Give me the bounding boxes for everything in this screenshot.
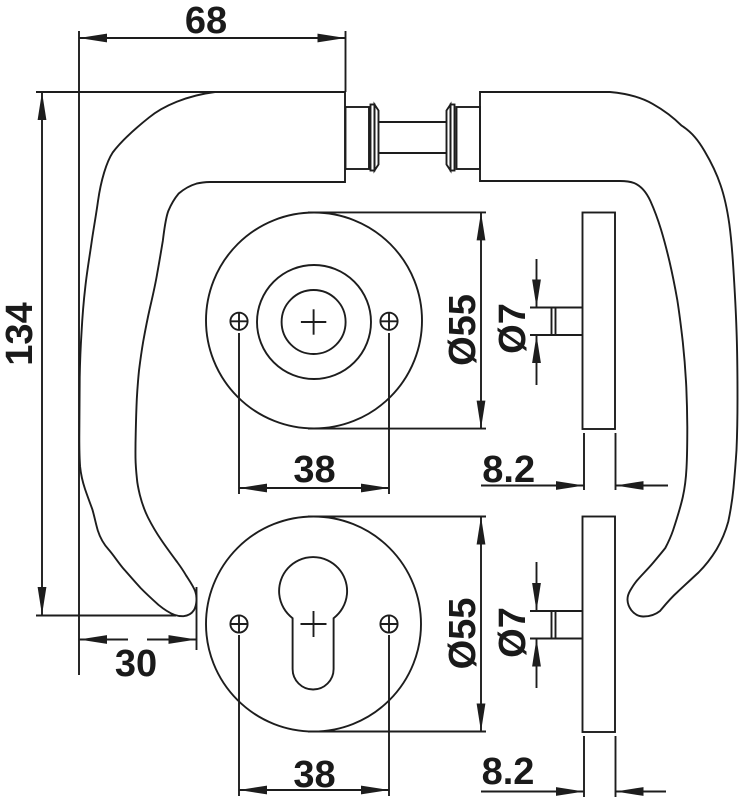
spindle left flange ring xyxy=(371,105,375,171)
dimension 134 arrow bottom xyxy=(38,587,47,615)
top dimension 38 line xyxy=(239,487,389,489)
dimension 134 extension line top xyxy=(36,91,218,93)
top dimension 38 arrow left xyxy=(239,484,267,493)
top dimension D55 extension bottom xyxy=(308,428,486,430)
bottom dimension D7 upper shaft xyxy=(536,562,538,611)
top dimension 8.2 left line and arrow xyxy=(481,485,584,487)
bottom dimension D55 line xyxy=(480,517,482,732)
bottom dimension 8.2 left line and arrow xyxy=(481,791,584,793)
svg-text:Ø55: Ø55 xyxy=(442,598,484,670)
svg-text:Ø7: Ø7 xyxy=(492,303,534,354)
bottom dimension D55 arrow up xyxy=(477,517,486,545)
spindle right flange ring xyxy=(451,105,455,171)
spindle shaft bottom line xyxy=(379,152,447,154)
spindle shaft top line xyxy=(379,121,447,123)
bottom dimension 8.2 extension left xyxy=(583,736,585,797)
top rosette inner circle xyxy=(282,290,346,354)
bottom dimension 38 arrow right xyxy=(361,786,389,795)
bottom dimension D55 arrow down xyxy=(477,704,486,732)
bottom dimension D7 extension ticks xyxy=(530,610,552,612)
top dimension 38 arrow right xyxy=(361,484,389,493)
spindle left collar xyxy=(346,107,370,169)
top rosette right screw xyxy=(380,313,397,330)
dimension 30 extension right xyxy=(196,587,198,650)
bottom dimension D55 extension top xyxy=(308,516,486,518)
bottom rosette center cross xyxy=(301,623,327,625)
dimension 30 arrow left xyxy=(79,635,107,644)
top dimension D7 lower shaft xyxy=(536,335,538,385)
top dimension D55 extension top xyxy=(308,211,486,213)
bottom 38 leader line left xyxy=(238,635,240,796)
svg-text:8.2: 8.2 xyxy=(482,751,535,793)
svg-text:38: 38 xyxy=(293,754,335,796)
top 38 leader line left xyxy=(238,333,240,494)
top dimension D55 line xyxy=(480,212,482,428)
top dimension 8.2 extension right xyxy=(615,433,617,490)
dimension 134 extension line bottom xyxy=(36,615,176,617)
bottom rosette outer circle xyxy=(206,517,421,732)
bottom dimension 8.2 extension right xyxy=(615,736,617,797)
svg-text:68: 68 xyxy=(185,0,227,42)
bottom rosette euro keyhole xyxy=(279,557,347,689)
spindle right collar xyxy=(457,107,481,169)
bottom rosette right screw xyxy=(380,615,397,632)
svg-text:30: 30 xyxy=(115,643,157,685)
left lever handle outline xyxy=(79,92,345,616)
dimension 30 line xyxy=(79,639,128,641)
spindle right flange chamfered disc xyxy=(447,105,451,171)
bottom dimension 8.2 right line and arrow xyxy=(616,791,667,793)
top dimension D7 upper shaft xyxy=(536,259,538,308)
bottom side-view rosette plate xyxy=(583,517,616,733)
top dimension 8.2 right line and arrow xyxy=(616,485,669,487)
bottom dimension 38 arrow left xyxy=(239,786,267,795)
dimension 68 arrow left xyxy=(79,34,107,43)
dimension 134 line xyxy=(41,92,43,615)
dimension 134 arrow top xyxy=(38,92,47,120)
bottom dimension D7 lower shaft xyxy=(536,639,538,689)
bottom rosette left screw xyxy=(230,615,247,632)
top rosette middle circle xyxy=(257,265,371,379)
top side-view rosette plate xyxy=(583,213,616,430)
dimension 30 arrow right xyxy=(169,635,197,644)
top rosette center cross xyxy=(301,321,326,323)
svg-text:Ø7: Ø7 xyxy=(492,607,534,658)
top dimension D7 extension ticks xyxy=(530,307,552,309)
spindle left flange chamfered disc xyxy=(375,105,379,171)
right lever handle outline xyxy=(480,92,738,617)
svg-text:Ø55: Ø55 xyxy=(442,294,484,366)
top side-view fixing pin xyxy=(552,308,583,336)
top dimension D55 arrow down xyxy=(477,401,486,429)
dimension 68 extension line left (shared with 30) xyxy=(78,31,80,675)
dimension 68 line xyxy=(79,37,346,39)
top dimension D55 arrow up xyxy=(477,212,486,240)
top dimension 8.2 extension left xyxy=(583,433,585,490)
dimension 68 extension line right xyxy=(345,31,347,92)
bottom 38 leader line right xyxy=(388,635,390,796)
svg-text:8.2: 8.2 xyxy=(482,449,535,491)
bottom dimension D55 extension bottom xyxy=(308,731,486,733)
top rosette left screw xyxy=(230,313,247,330)
bottom dimension 38 line xyxy=(239,789,389,791)
svg-text:134: 134 xyxy=(0,302,41,365)
bottom side-view fixing pin xyxy=(552,611,583,639)
top rosette outer circle xyxy=(206,213,422,429)
svg-text:38: 38 xyxy=(293,449,335,491)
dimension 68 arrow right xyxy=(318,34,346,43)
top 38 leader line right xyxy=(388,333,390,494)
